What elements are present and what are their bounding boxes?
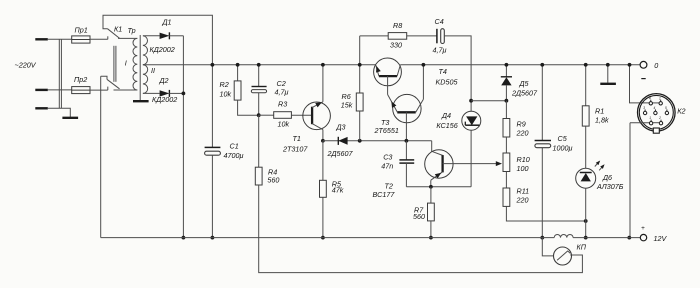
connector K2 pin 1 (top right) [659,96,662,105]
label 330 (R8) [390,40,402,49]
label Д4 [441,111,451,120]
resistor R7 [428,203,435,221]
label Д1 [162,18,172,27]
wire T3 collector to rail [422,65,424,100]
connector K2 pin 3 (mid left) [643,106,647,115]
wire C3 top lead [405,141,407,160]
svg-text:10k: 10k [220,90,232,99]
node R1 rail [584,63,588,67]
wire C2 top lead [258,65,260,87]
label KD505 [436,77,459,86]
svg-text:Т1: Т1 [293,134,301,143]
transformer T primary winding I [133,38,137,90]
resistor R1 [582,106,589,126]
svg-text:Д5: Д5 [519,79,530,88]
label plus [641,225,645,232]
wire K2 bottom to +12V rail [629,123,631,238]
node Д5 / R9 [505,99,509,103]
svg-text:12V: 12V [654,234,668,243]
capacitor C2 [251,87,266,93]
svg-text:R1: R1 [595,106,604,115]
LED Д6 АЛ307Б [576,168,596,188]
svg-text:+: + [641,225,645,232]
label 1000μ [553,143,573,152]
svg-text:R10: R10 [517,155,530,164]
node rectifier output / Д2 [182,92,186,96]
wire T2 emitter row [406,186,471,188]
resistor R8 [388,33,407,40]
switch K1 pole 2 [101,76,120,89]
node C2 top [257,63,261,67]
svg-text:1,8k: 1,8k [595,115,609,124]
svg-text:1000μ: 1000μ [553,143,573,152]
label R11 [517,187,530,196]
svg-text:220: 220 [516,195,529,204]
transistor T1 circle [303,102,331,130]
svg-text:R3: R3 [278,100,287,109]
svg-text:4,7μ: 4,7μ [433,45,447,54]
transistor T1 collector [312,124,323,130]
resistor R6 [356,93,363,111]
wire T1 emitter to rail [322,65,324,102]
transistor T2 emitter [431,172,443,180]
diode Д1 [160,32,170,39]
potentiometer R10 [503,153,510,172]
label 47k (R5) [332,186,344,195]
svg-text:Д1: Д1 [162,18,172,27]
wire top rail right segment [400,64,640,66]
wire secondary top tap [143,35,160,37]
label 100 (R10) [517,164,529,173]
label R6 [342,92,351,101]
node R2 top [236,63,240,67]
wire primary top [118,37,137,39]
wire R1 top lead [585,65,587,106]
wire C2 bottom lead [258,93,260,115]
wire secondary bottom tap [143,92,160,94]
svg-text:АЛ307Б: АЛ307Б [596,182,624,191]
wire Д5 bottom lead [505,85,507,100]
label R5 [332,179,342,188]
wire R5 bottom lead [322,197,324,237]
node Д3 row / T3 base / C3 [405,139,409,143]
svg-text:2Д5607: 2Д5607 [327,149,354,158]
wire R1 to LED [585,126,587,168]
node R5 bottom [321,236,325,240]
node T2 emitter / R7 [429,185,433,189]
label C4 [435,17,444,26]
fuse Пр1 [72,36,90,43]
diode Д3 [338,137,347,145]
label R8 [393,21,402,30]
label Пр1 [75,26,88,35]
wire ground stem [607,65,609,83]
node C5 rail [540,63,544,67]
svg-text:C5: C5 [558,134,568,143]
node T3 collector rail [422,63,426,67]
node C5 bottom / relay [540,236,544,240]
connector K2 pin 1b (bottom left) [649,116,653,125]
node R6 top rail [358,63,362,67]
label minus [641,78,645,80]
wire R8 to C4 [407,35,437,37]
ground (transformer core) [133,100,149,102]
node LED bottom rail [584,236,588,240]
wire R5 top lead [322,141,324,181]
node K2 top wire rail [628,63,632,67]
label АЛ307Б [596,182,624,191]
label 0 [654,61,658,70]
wire K2 pin link bottom [653,122,659,124]
label ~220V [15,61,37,70]
svg-text:Д4: Д4 [441,111,451,120]
svg-text:4: 4 [649,96,651,100]
transistor T3 collector [416,99,424,112]
svg-text:R2: R2 [220,80,229,89]
label Д2 [159,76,169,85]
connector K2 pin 4 (top left) [649,96,653,105]
label 220 (R9) [516,128,529,137]
label 4700μ [224,151,244,160]
svg-text:330: 330 [390,40,402,49]
label R9 [517,120,526,129]
label 2Т6551 [374,126,399,135]
node Д5 rail [505,63,509,67]
label R1 [595,106,604,115]
connector K2 pin 4m (mid center) [654,106,658,115]
connector K2 pin 2 (bottom right) [658,116,663,125]
relay coil КП [554,234,573,237]
wire C4 to Д4 line [444,36,471,101]
label 12V [654,234,668,243]
transformer secondary winding II upper [143,36,148,65]
transformer core [139,35,141,101]
wire R9-R10 [505,137,507,153]
transistor T3 circle [393,94,421,122]
label КД2002 (Д2) [152,95,177,104]
wire prong1 to fuse [48,38,72,40]
wire Д3 row [323,140,432,142]
label 10k (R2) [220,90,232,99]
wire R4 top lead [258,115,260,167]
capacitor C1 [205,147,221,155]
wire K2 bottom row [630,122,649,124]
svg-text:0: 0 [654,61,658,70]
wire top rail left segment [143,64,376,66]
node base row junction [257,113,261,117]
svg-text:К1: К1 [114,25,122,34]
mains prong terminal 2 [35,89,48,91]
mains prong terminal 1 [35,38,48,40]
capacitor C4 [437,29,444,44]
node ground rail [606,63,610,67]
wire Д2 cathode [169,92,183,94]
wire R9 top lead [505,101,507,119]
wire R7 bottom lead [430,221,432,238]
diode Д5 2Д5607 [501,77,512,86]
transistor T3 emitter [388,95,398,113]
connector K2 pin 5 (mid right) [665,106,669,115]
svg-text:1: 1 [649,116,651,120]
wire T2 base to R10 wiper [443,161,502,166]
svg-text:4: 4 [654,106,656,110]
svg-text:К2: К2 [677,107,685,116]
svg-text:220: 220 [516,128,529,137]
label I [125,58,127,67]
label Т3 [381,118,389,127]
capacitor C3 [399,160,414,163]
svg-text:10k: 10k [278,119,290,128]
svg-text:Пр1: Пр1 [75,26,88,35]
label Т4 [439,67,447,76]
svg-text:2Т3107: 2Т3107 [282,145,308,154]
svg-text:C4: C4 [435,17,444,26]
label 2Д5607 (Д5) [511,88,538,97]
label 15k (R6) [341,100,353,109]
svg-text:C3: C3 [383,153,392,162]
wire Д5 top lead [505,65,507,77]
label 560 (R4) [267,176,279,185]
terminal 0 [640,61,647,68]
wire K1 pole1 pivot to 0V node [103,15,212,65]
svg-text:47k: 47k [332,186,344,195]
wire LED bottom lead [585,188,587,237]
pedal contact КП blade [557,251,570,260]
transistor T1 emitter [312,102,323,108]
wire C5 top lead [541,65,543,141]
wire T2 collector path [432,141,443,156]
svg-text:Пр2: Пр2 [74,75,87,84]
wire R8 row left [360,35,389,37]
pedal contact КП circle [554,247,572,265]
svg-text:Т4: Т4 [439,67,447,76]
wire T1 collector down [322,130,324,141]
svg-text:R11: R11 [517,187,530,196]
node rectifier to +12V rail [182,236,186,240]
resistor R2 [234,81,241,100]
svg-text:ВС177: ВС177 [373,190,396,199]
svg-text:Тр: Тр [128,26,136,35]
wire Д4-Д5 row [471,100,506,102]
svg-text:47n: 47n [381,161,393,170]
label ВС177 [373,190,396,199]
svg-text:3: 3 [643,106,645,110]
node R7 bottom [429,236,433,240]
label C3 [383,153,392,162]
label II [151,66,155,75]
svg-text:~220V: ~220V [15,61,37,70]
wire switch to +12V rail (left end of bottom rail) [100,76,102,237]
label Т1 [293,134,301,143]
label К1 [114,25,122,34]
wire R6 bottom lead [359,111,361,141]
label R2 [220,80,229,89]
svg-text:KD505: KD505 [436,77,459,86]
wire rectifier output vertical [182,36,184,238]
resistor R9 [503,119,510,138]
transistor T1 base bar [311,107,313,125]
wire R11 bottom to rail [506,206,585,221]
transistor T4 circle [374,58,402,86]
svg-text:Д6: Д6 [602,173,612,182]
svg-text:2Т6551: 2Т6551 [374,126,399,135]
transformer secondary winding II lower [143,65,148,94]
wire R10-R11 [505,172,507,189]
node T1 collector / Д3 row [321,139,325,143]
svg-text:1: 1 [659,96,661,100]
label Тр [128,26,136,35]
svg-text:560: 560 [267,176,279,185]
label C2 [277,79,286,88]
wire +12V rail right segment [573,237,640,239]
wire Д4 top lead [470,101,472,112]
svg-text:4700μ: 4700μ [224,151,244,160]
svg-text:КД2002: КД2002 [152,95,177,104]
wire T3 base down [405,112,407,141]
resistor R4 [255,167,262,185]
connector K2 inner circle [639,95,673,129]
svg-text:Д2: Д2 [159,76,169,85]
wire prong3 to ground [48,108,71,117]
svg-text:R9: R9 [517,120,526,129]
resistor R11 [503,188,510,206]
label C5 [558,134,568,143]
transistor T2 base bar [441,155,443,172]
label КС156 [436,121,457,130]
label 1,8k [595,115,609,124]
wire K2 pin link top [653,102,659,104]
switch K1 linkage [114,46,116,82]
wire R2 bottom to base row [238,100,259,115]
svg-text:2Д5607: 2Д5607 [511,88,538,97]
node K2 wire on +12V rail [627,236,631,240]
switch K1 pole 1 contact [90,36,108,39]
svg-text:I: I [125,58,127,67]
svg-text:560: 560 [413,212,425,221]
label R10 [517,155,530,164]
wire C1 top lead [211,65,213,148]
transistor T4 base bar [379,75,397,77]
diode Д2 [160,90,170,97]
wire primary bottom [114,89,138,91]
label 2Т3107 [282,145,308,154]
label 10k (R3) [278,119,290,128]
label 47n (C3) [381,161,393,170]
connector K2 key notch [653,128,659,133]
svg-text:КП: КП [577,242,587,251]
connector K2 outer circle [638,94,676,132]
ground (mains) [62,117,78,119]
wire R6/R8 vertical [359,36,361,93]
label Д3 [336,122,346,131]
node T1 emitter rail [321,63,325,67]
svg-text:II: II [151,66,155,75]
label К2 [677,107,685,116]
label КД2002 (Д1) [150,45,175,54]
wire C1 bottom lead [211,155,213,237]
terminal +12V [640,234,646,240]
svg-text:100: 100 [517,164,529,173]
wire rail to K2 top [630,65,650,103]
mains cable pair line a [58,39,60,108]
resistor R5 [320,180,327,197]
svg-text:Д3: Д3 [336,122,346,131]
transistor T4 emitter [376,65,381,76]
wire R3 to T1 base [291,114,311,116]
label 220 (R11) [516,195,529,204]
wire Д4 bottom lead [470,130,472,187]
label 560 (R7) [413,212,425,221]
wire base row to R3 [259,114,274,116]
svg-text:КС156: КС156 [436,121,457,130]
wire T4 base down [387,76,389,94]
zener diode Д4 КС156 [462,111,481,130]
capacitor C5 [535,141,551,148]
label Пр2 [74,75,87,84]
label Д6 [602,173,612,182]
ground (output common) [600,83,616,85]
label Д5 [519,79,530,88]
label C1 [230,142,239,151]
svg-text:R8: R8 [393,21,402,30]
wire R7 top lead [430,187,432,203]
svg-text:15k: 15k [341,100,353,109]
wire R4 bottom to pedal contact line [259,185,583,273]
label 4,7μ (C4) [433,45,447,54]
node C1 top [211,63,215,67]
wire relay contact left lead [542,238,553,256]
label R7 [414,206,424,215]
transistor T3 base bar [397,111,415,113]
fuse Пр2 [72,87,90,94]
svg-text:C1: C1 [230,142,239,151]
label R3 [278,100,287,109]
transistor T4 collector [397,65,400,76]
label КП [577,242,587,251]
node Д3 / R6 junction [358,139,362,143]
LED Д6 emission arrows [595,161,605,171]
wire fuse2 to switch contact [90,87,108,91]
label R4 [268,167,277,176]
wire T2 emitter down [430,180,432,187]
label 2Д5607 (Д3) [327,149,354,158]
transistor T2 circle [425,150,453,178]
node Д4 / Д5 row [469,99,473,103]
svg-text:5: 5 [665,106,667,110]
label Т2 [385,182,393,191]
wire prong2 to fuse [48,89,72,91]
wire C3 bottom lead [405,163,407,187]
resistor R3 [274,112,292,119]
wire +12V rail left segment [101,237,555,239]
mains cable pair line b [60,39,62,108]
svg-text:4,7μ: 4,7μ [275,88,289,97]
node C1 bottom [211,236,215,240]
mains prong terminal 3 [35,107,48,109]
node R11 line / LED line [584,219,588,223]
wire Д1 cathode [169,35,183,37]
switch K1 pole 1 blade [108,29,120,39]
wire C5 bottom lead [541,148,543,238]
label 4,7μ (C2) [275,88,289,97]
svg-text:2: 2 [658,116,661,120]
wire R2 top lead [237,65,239,81]
svg-text:КД2002: КД2002 [150,45,175,54]
